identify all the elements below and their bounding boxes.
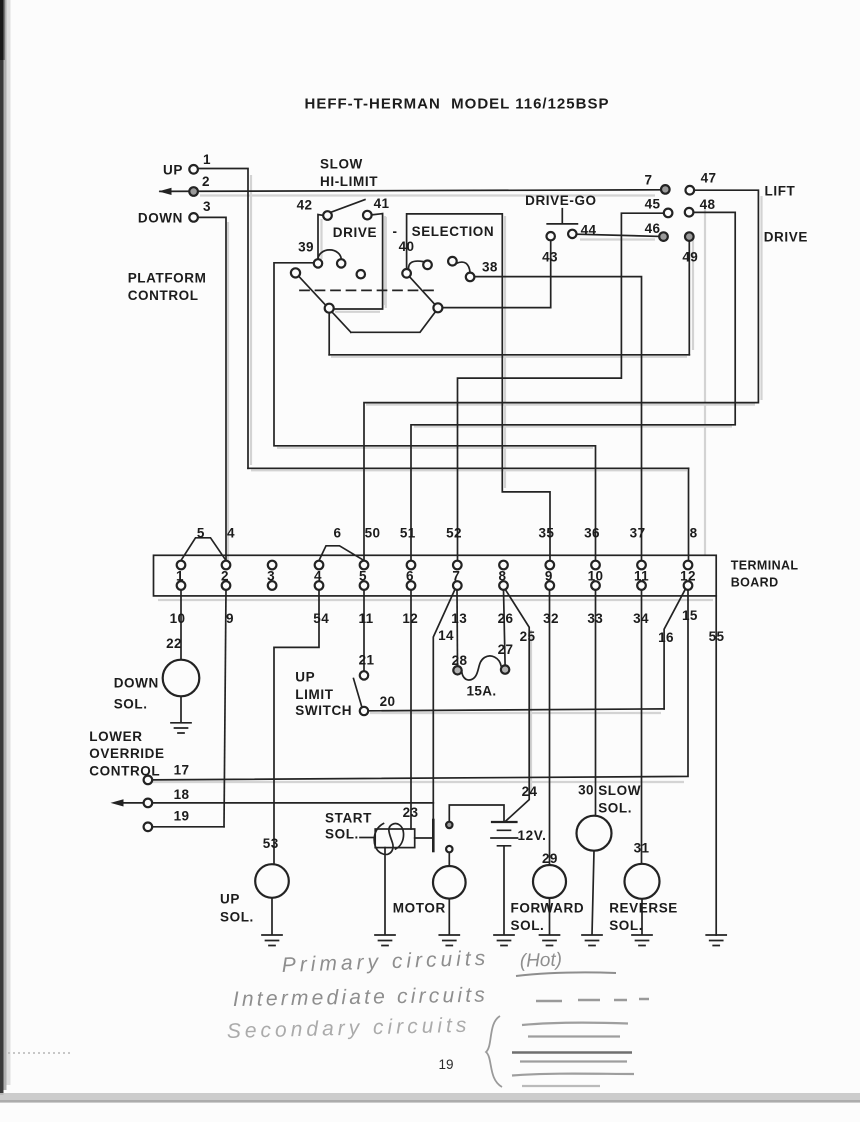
svg-text:49: 49 [682,250,698,265]
svg-text:SLOW: SLOW [320,157,363,172]
svg-text:SWITCH: SWITCH [295,703,352,718]
svg-text:54: 54 [313,611,329,626]
svg-text:OVERRIDE: OVERRIDE [89,746,164,761]
svg-text:DOWN: DOWN [114,676,159,691]
svg-text:4: 4 [227,525,235,540]
svg-text:10: 10 [170,611,186,626]
svg-text:51: 51 [400,525,416,540]
svg-text:55: 55 [709,629,725,644]
svg-text:DOWN: DOWN [138,210,183,225]
svg-text:11: 11 [358,611,373,626]
svg-text:20: 20 [380,694,396,709]
svg-text:6: 6 [334,525,342,540]
svg-text:34: 34 [633,611,649,626]
svg-text:12V.: 12V. [518,828,547,843]
svg-text:47: 47 [701,170,717,185]
svg-text:33: 33 [587,611,603,626]
svg-text:13: 13 [451,611,467,626]
svg-text:7: 7 [644,172,652,187]
svg-text:SOL.: SOL. [114,697,148,712]
svg-text:35: 35 [538,525,554,540]
svg-text:LIMIT: LIMIT [295,687,333,702]
svg-text:Primary circuits: Primary circuits [281,947,489,977]
svg-text:LIFT: LIFT [765,184,796,199]
svg-text:Intermediate circuits: Intermediate circuits [233,984,488,1011]
svg-text:8: 8 [690,525,698,540]
svg-text:22: 22 [166,636,182,651]
svg-text:52: 52 [446,525,462,540]
svg-text:2: 2 [221,568,229,583]
svg-text:SOL.: SOL. [325,826,359,841]
svg-text:7: 7 [452,568,460,583]
svg-text:32: 32 [543,611,559,626]
svg-text:53: 53 [263,836,279,851]
svg-text:18: 18 [174,787,190,802]
svg-text:5: 5 [359,568,367,583]
svg-text:16: 16 [658,630,674,645]
svg-text:-: - [392,224,397,239]
svg-text:SLOW: SLOW [598,783,641,798]
svg-text:12: 12 [402,611,418,626]
svg-text:11: 11 [634,568,649,583]
svg-text:UP: UP [163,163,183,178]
svg-text:2: 2 [202,174,210,189]
svg-text:1: 1 [176,568,184,583]
svg-text:39: 39 [298,240,314,255]
svg-text:MOTOR: MOTOR [393,901,446,916]
svg-text:15A.: 15A. [466,683,496,698]
svg-text:29: 29 [542,851,558,866]
svg-text:START: START [325,810,372,825]
svg-text:21: 21 [359,653,375,668]
svg-text:42: 42 [297,197,313,212]
svg-text:27: 27 [498,642,514,657]
svg-text:36: 36 [584,525,600,540]
svg-text:DRIVE: DRIVE [764,229,808,244]
svg-text:23: 23 [403,805,419,820]
svg-text:LOWER: LOWER [89,729,142,744]
svg-text:3: 3 [267,568,275,583]
svg-text:26: 26 [498,611,514,626]
svg-text:SELECTION: SELECTION [412,224,495,239]
svg-text:9: 9 [545,568,553,583]
svg-text:15: 15 [682,608,698,623]
svg-text:1: 1 [203,152,211,167]
svg-text:BOARD: BOARD [731,576,779,590]
svg-text:REVERSE: REVERSE [609,900,678,915]
svg-text:46: 46 [645,221,661,236]
svg-text:43: 43 [542,249,558,264]
svg-text:5: 5 [197,525,205,540]
svg-text:10: 10 [588,568,604,583]
svg-text:30: 30 [578,783,594,798]
svg-text:9: 9 [226,611,234,626]
svg-text:41: 41 [374,196,390,211]
svg-text:UP: UP [220,892,240,907]
svg-text:(Hot): (Hot) [519,950,562,972]
svg-text:38: 38 [482,259,498,274]
svg-text:SOL.: SOL. [609,918,643,933]
svg-text:17: 17 [174,763,190,778]
svg-text:DRIVE-GO: DRIVE-GO [525,193,597,208]
svg-text:Secondary circuits: Secondary circuits [227,1014,471,1043]
svg-text:CONTROL: CONTROL [128,288,199,303]
svg-text:SOL.: SOL. [220,910,254,925]
svg-text:12: 12 [680,568,696,583]
svg-text:45: 45 [645,197,661,212]
svg-text:3: 3 [203,199,211,214]
svg-text:48: 48 [700,197,716,212]
svg-text:14: 14 [438,628,454,643]
svg-text:HEFF-T-HERMAN MODEL 116/125BS: HEFF-T-HERMAN MODEL 116/125BSP [305,96,610,113]
svg-text:28: 28 [452,653,468,668]
svg-text:FORWARD: FORWARD [511,900,585,915]
svg-text:19: 19 [438,1057,453,1072]
svg-text:TERMINAL: TERMINAL [731,559,799,573]
svg-text:40: 40 [399,239,415,254]
svg-text:PLATFORM: PLATFORM [128,271,207,286]
svg-text:25: 25 [520,629,536,644]
svg-text:37: 37 [630,525,646,540]
svg-text:31: 31 [634,841,650,856]
svg-text:SOL.: SOL. [598,801,632,816]
svg-text:19: 19 [174,809,190,824]
svg-text:6: 6 [406,568,414,583]
svg-text:DRIVE: DRIVE [333,225,377,240]
svg-text:4: 4 [314,568,322,583]
svg-text:HI-LIMIT: HI-LIMIT [320,174,378,189]
svg-text:UP: UP [295,669,315,684]
svg-text:50: 50 [365,525,381,540]
svg-text:8: 8 [499,568,507,583]
svg-text:44: 44 [581,222,597,237]
svg-text:CONTROL: CONTROL [89,763,160,778]
svg-text:SOL.: SOL. [511,918,545,933]
svg-text:24: 24 [522,784,538,799]
